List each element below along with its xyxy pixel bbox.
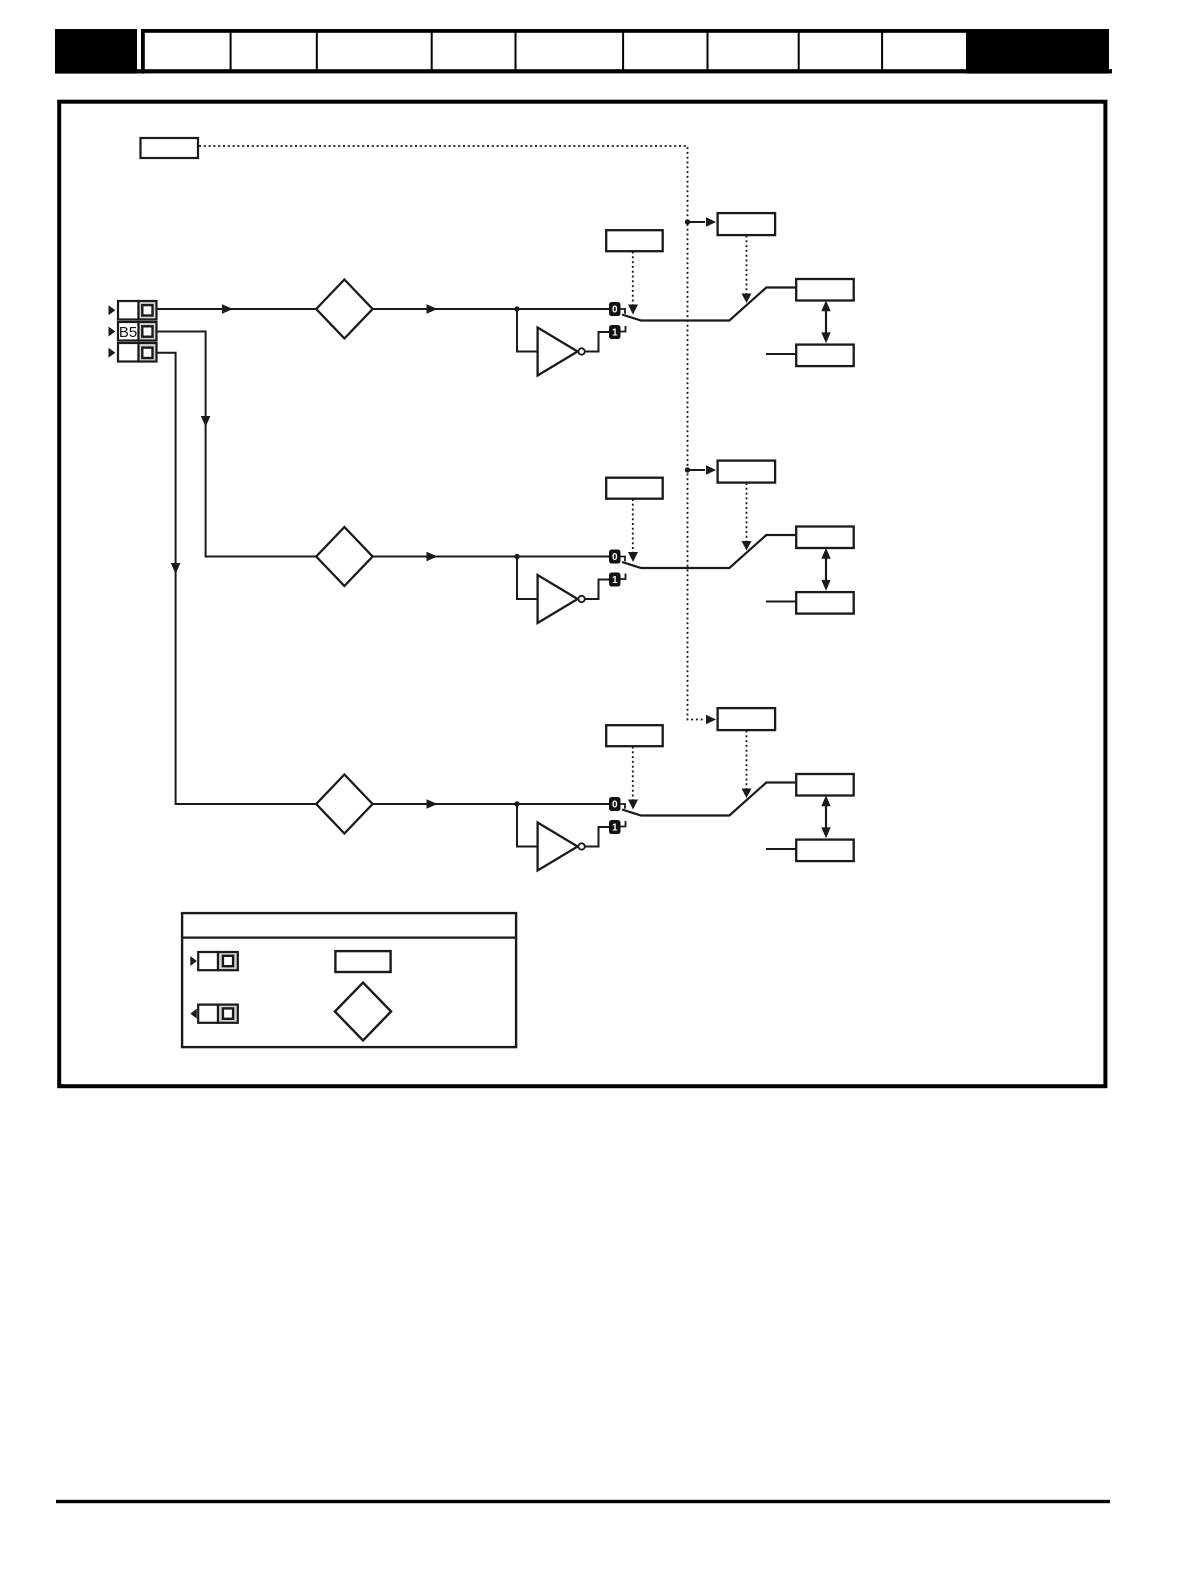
header tab divider 3 — [431, 31, 433, 71]
stub wire left of P3d — [766, 848, 796, 850]
inverter NOT gate U1 — [538, 328, 585, 376]
switch SW1 terminal label 0 — [609, 302, 621, 316]
switch SW2 terminal label 1 — [609, 573, 621, 587]
junction node J1 — [514, 306, 519, 311]
switch SW3 terminal label 1 — [609, 820, 621, 834]
dotted control arrow from P1b to switch SW1 lever — [742, 236, 752, 304]
diamond comparator D1 — [316, 280, 372, 339]
double-headed arrow between P3c and P3d — [821, 795, 830, 838]
invert-select parameter box P1b — [718, 213, 776, 235]
stub wire left of P2d — [766, 601, 796, 603]
switch SW2 lever and output wire to parameter box — [622, 535, 795, 568]
destination parameter box P1c — [796, 279, 854, 301]
wire inverter U2 output to switch SW2 input 1 — [585, 580, 609, 600]
switch SW3 terminal label 0 — [609, 797, 621, 811]
legend comparator diamond symbol — [335, 983, 391, 1041]
trunk junction node row1 — [685, 219, 690, 224]
stub wire left of P1d — [766, 353, 796, 355]
svg-text:0: 0 — [612, 305, 618, 316]
switch SW2 contact 1 stub — [621, 574, 626, 580]
terminal block input pin row1 — [109, 301, 157, 320]
legend key box — [181, 913, 516, 1047]
wire diamond D3 output to switch SW3 input 0 — [373, 799, 609, 809]
dotted control arrow from P3a to switch SW3 pivot — [628, 747, 638, 810]
wire diamond D2 output to switch SW2 input 0 — [373, 552, 609, 562]
indicator parameter box P3d — [796, 840, 854, 862]
wire inverter U3 output to switch SW3 input 1 — [585, 827, 609, 847]
logic diagram frame — [59, 102, 1105, 1086]
switch SW2 terminal label 0 — [609, 550, 621, 564]
dotted control arrow from P2b to switch SW2 lever — [742, 483, 752, 551]
svg-text:1: 1 — [612, 823, 618, 834]
inverter NOT gate U2 — [538, 575, 585, 623]
svg-text:0: 0 — [612, 552, 618, 563]
select-source parameter box P3a — [606, 725, 663, 746]
svg-text:0: 0 — [612, 800, 618, 811]
select-source parameter box P2a — [606, 478, 663, 499]
diamond comparator D3 — [316, 775, 372, 834]
switch SW3 contact 1 stub — [621, 821, 626, 827]
wire junction J3 to inverter U3 input — [517, 804, 537, 847]
header tab divider 5 — [622, 31, 624, 71]
header tab divider 7 — [798, 31, 800, 71]
destination parameter box P2c — [796, 527, 854, 549]
wire diamond D1 output to switch SW1 input 0 — [373, 304, 609, 314]
dotted control arrow from P1a to switch SW1 pivot — [628, 252, 638, 315]
wire junction J2 to inverter U2 input — [517, 557, 537, 600]
indicator parameter box P2d — [796, 592, 854, 614]
svg-text:B5: B5 — [119, 324, 137, 341]
header tab divider 2 — [316, 31, 318, 71]
wire junction J1 to inverter U1 input — [517, 309, 537, 352]
header right black tab — [966, 29, 1109, 74]
header tab bar frame — [141, 29, 1109, 74]
footer rule — [56, 1500, 1110, 1503]
wire inverter U1 output to switch SW1 input 1 — [585, 332, 609, 352]
header tab divider 1 — [230, 31, 232, 71]
switch SW3 contact 0 stub — [621, 804, 626, 809]
junction node J2 — [514, 554, 519, 559]
header tab divider 4 — [515, 31, 517, 71]
legend output terminal symbol — [190, 1005, 238, 1023]
header tab divider 8 — [881, 31, 883, 71]
svg-text:1: 1 — [612, 575, 618, 586]
inverter NOT gate U3 — [538, 823, 585, 871]
terminal block input pin row3 — [109, 343, 157, 362]
double-headed arrow between P2c and P2d — [821, 548, 830, 591]
terminal block input pin B5 — [109, 322, 157, 341]
diamond comparator D2 — [316, 527, 372, 586]
arrow from trunk junction into P2b — [688, 465, 717, 475]
trunk junction node row2 — [685, 467, 690, 472]
select-source parameter box P1a — [606, 230, 663, 251]
invert-select parameter box P3b — [718, 708, 776, 730]
switch SW2 contact 0 stub — [621, 557, 626, 562]
svg-text:1: 1 — [612, 328, 618, 339]
header left black tab — [55, 29, 137, 74]
legend input terminal symbol — [190, 952, 238, 970]
wire terminal B5 to diamond D2 — [158, 332, 317, 557]
dotted trunk wire from P0 down the page — [199, 146, 716, 724]
header tab divider 6 — [707, 31, 709, 71]
switch SW1 contact 0 stub — [621, 309, 626, 314]
wire terminal row3 to diamond D3 — [158, 353, 317, 804]
indicator parameter box P1d — [796, 345, 854, 367]
double-headed arrow between P1c and P1d — [821, 300, 830, 343]
switch SW3 lever and output wire to parameter box — [622, 783, 795, 816]
dotted control arrow from P3b to switch SW3 lever — [742, 731, 752, 799]
switch SW1 terminal label 1 — [609, 325, 621, 339]
destination parameter box P3c — [796, 774, 854, 796]
mode parameter box P0 (top left) — [141, 138, 199, 158]
invert-select parameter box P2b — [718, 461, 776, 483]
legend read-write parameter box symbol — [335, 951, 390, 972]
switch SW1 lever and output wire to parameter box — [622, 288, 795, 321]
junction node J3 — [514, 801, 519, 806]
dotted control arrow from P2a to switch SW2 pivot — [628, 499, 638, 562]
switch SW1 contact 1 stub — [621, 326, 626, 332]
header tab bar bottom rule — [55, 69, 1112, 73]
arrow from trunk junction into P1b — [688, 217, 717, 227]
wire terminal row1 to diamond D1 — [158, 304, 317, 314]
